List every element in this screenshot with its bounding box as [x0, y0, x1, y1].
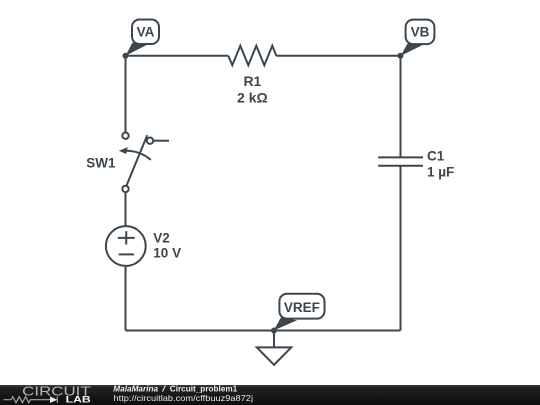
svg-text:10 V: 10 V [153, 245, 181, 260]
V2 plus sign [118, 231, 135, 244]
wire ground stub from VREF node [273, 331, 275, 348]
switch SW1 bottom terminal circle [122, 186, 128, 192]
capacitor C1 top plate [378, 156, 423, 158]
node VREF dot [271, 328, 277, 334]
wire C1 bottom plate to bottom-right corner [400, 166, 402, 331]
svg-text:MalaMarina / Circuit_problem1: MalaMarina / Circuit_problem1 [113, 383, 237, 393]
wire bottom horizontal (left corner to VB right vertical) [126, 330, 401, 332]
wire SW1 bottom terminal to V2 top [125, 192, 127, 226]
switch SW1 top terminal circle [122, 133, 128, 139]
wire top-left horizontal (VA node to R1 left lead) [126, 55, 229, 57]
switch SW1 arrow head [119, 147, 128, 154]
node flag VA box [132, 20, 159, 45]
svg-text:C1: C1 [427, 149, 445, 164]
voltage source V2 circle [106, 226, 146, 266]
node flag VB box [406, 20, 435, 44]
resistor R1 zigzag body [228, 46, 276, 65]
node VA dot [123, 53, 129, 59]
switch SW1 actuation arrow arc [126, 151, 151, 160]
capacitor C1 bottom plate [378, 165, 423, 167]
switch SW1 blade [126, 135, 147, 186]
svg-text:VREF: VREF [284, 300, 320, 315]
CircuitLab logo diode triangle [50, 396, 57, 403]
footer black bar [0, 385, 540, 405]
node flag VREF pointer wedge [274, 318, 297, 331]
wire left vertical VA node to SW1 top terminal [125, 56, 127, 133]
svg-text:LAB: LAB [66, 395, 91, 405]
svg-text:R1: R1 [243, 73, 261, 89]
svg-text:V2: V2 [153, 230, 170, 245]
svg-text:VA: VA [137, 25, 155, 40]
switch SW1 right throw terminal circle [147, 138, 153, 144]
V2 minus sign [119, 253, 134, 255]
node flag VA pointer wedge [126, 43, 149, 56]
wire right vertical VB node to C1 top plate [400, 56, 402, 158]
svg-text:2 kΩ: 2 kΩ [237, 89, 268, 105]
CircuitLab logo resistor-diode line [4, 396, 58, 403]
svg-text:1 µF: 1 µF [427, 164, 454, 179]
svg-text:SW1: SW1 [86, 156, 116, 171]
node flag VB pointer wedge [401, 44, 423, 56]
ground symbol triangle [257, 347, 291, 364]
wire SW1 right throw stub [153, 140, 169, 142]
node VB dot [398, 53, 404, 59]
node flag VREF box [279, 294, 324, 319]
wire V2 bottom to bottom-left corner [125, 266, 127, 331]
wire R1 right lead to VB node [276, 55, 400, 57]
svg-text:VB: VB [411, 25, 430, 40]
svg-text:http://circuitlab.com/cffbuuz9: http://circuitlab.com/cffbuuz9a872j [114, 393, 254, 403]
